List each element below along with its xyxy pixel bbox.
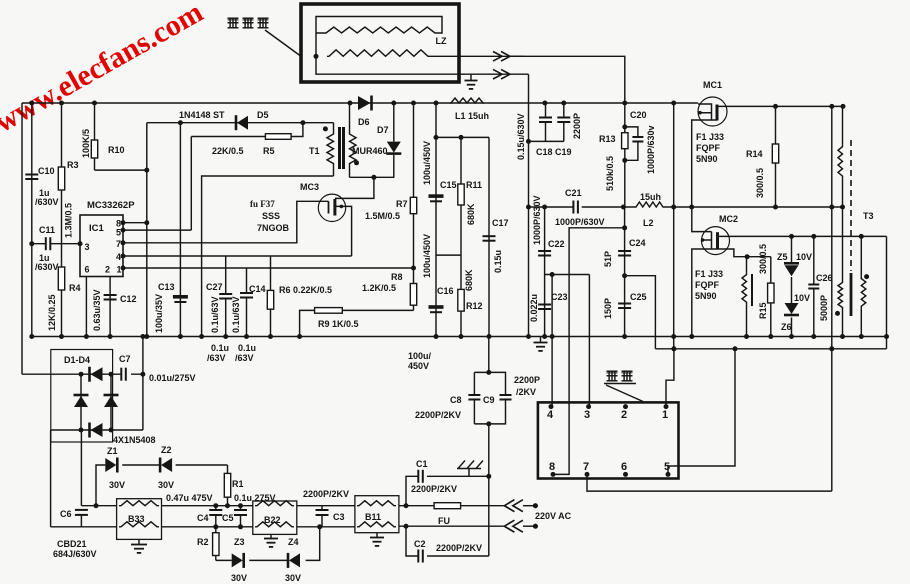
bridge box D1-D4 bbox=[51, 350, 113, 443]
junction dots pin8 vertical bbox=[144, 168, 149, 226]
svg-text:L2: L2 bbox=[643, 218, 654, 228]
wire socket line bbox=[655, 348, 886, 350]
svg-text:100K/5: 100K/5 bbox=[81, 129, 91, 158]
svg-text:R12: R12 bbox=[466, 301, 483, 311]
capacitor C2 bbox=[418, 550, 423, 563]
svg-text:B33: B33 bbox=[128, 514, 145, 524]
label 0.1u /63V below rail left bbox=[207, 343, 229, 363]
svg-text:1: 1 bbox=[117, 265, 122, 275]
svg-text:R8: R8 bbox=[391, 272, 403, 282]
svg-text:3: 3 bbox=[584, 409, 590, 421]
resistor 300/0.5 box bbox=[768, 257, 774, 337]
wire rail2 right segment bbox=[664, 206, 843, 208]
svg-text:MC2: MC2 bbox=[719, 214, 738, 224]
capacitor C18 branch bbox=[539, 103, 552, 141]
junction dots R11 line bbox=[434, 135, 464, 140]
svg-text:R11: R11 bbox=[466, 180, 482, 190]
svg-text:5N90: 5N90 bbox=[696, 154, 718, 164]
svg-text:C14: C14 bbox=[249, 284, 266, 294]
junction dot Z4 up bbox=[317, 524, 322, 529]
wire left rail vertical bbox=[21, 103, 23, 374]
svg-text:10V: 10V bbox=[796, 252, 812, 262]
wire R13 vertical bbox=[624, 103, 626, 207]
svg-text:4: 4 bbox=[547, 409, 554, 421]
ground under coupler bottom wire bbox=[465, 74, 478, 89]
svg-text:Z2: Z2 bbox=[161, 445, 172, 455]
svg-text:FQPF: FQPF bbox=[695, 280, 720, 290]
wire C17 vertical bbox=[488, 137, 490, 336]
svg-text:C13: C13 bbox=[158, 282, 175, 292]
wire Z3-Z4 line bbox=[216, 527, 320, 561]
svg-text:7: 7 bbox=[583, 461, 589, 473]
MC3 source lead with dot bbox=[335, 205, 352, 256]
capacitor C10 bbox=[25, 175, 38, 180]
T3 right polarity dot bbox=[864, 274, 869, 279]
MC2 channel bar bbox=[716, 232, 719, 249]
capacitor C14 branch bbox=[240, 268, 253, 337]
coupler lower winding zigzag bbox=[327, 50, 430, 57]
svg-text:Z6: Z6 bbox=[781, 322, 792, 332]
transformer T3 secondary left winding bbox=[838, 207, 843, 337]
wire C10 branch vertical bbox=[31, 103, 33, 244]
svg-text:R6 0.22K/0.5: R6 0.22K/0.5 bbox=[279, 285, 332, 295]
svg-text:C25: C25 bbox=[630, 292, 647, 302]
arrow AC in upper bbox=[504, 500, 538, 512]
wire pin1 riser bbox=[666, 349, 674, 407]
leader line from 耦合器 to coupler box bbox=[265, 30, 302, 57]
svg-text:6: 6 bbox=[621, 461, 627, 473]
svg-text:4X1N5408: 4X1N5408 bbox=[113, 435, 156, 445]
junction dot tap bbox=[550, 272, 555, 339]
socket pin dots top bbox=[549, 404, 669, 409]
label 100u/ 450V lower bbox=[408, 351, 432, 371]
svg-text:C11: C11 bbox=[39, 225, 55, 235]
capacitor C3 bbox=[316, 506, 329, 527]
svg-text:10V: 10V bbox=[794, 293, 810, 303]
zener Z4 bbox=[288, 553, 300, 568]
diode D7 MUR460 bbox=[386, 103, 401, 177]
transformer T3 core bar bbox=[850, 273, 853, 316]
svg-text:C22: C22 bbox=[548, 239, 565, 249]
svg-text:5: 5 bbox=[116, 228, 121, 238]
MC2 gate structure bbox=[701, 232, 712, 249]
svg-text:C4: C4 bbox=[197, 513, 209, 523]
coupler inner loop wire bbox=[316, 17, 459, 75]
wire C10 line to rail3 bbox=[31, 244, 33, 337]
svg-text:15uh: 15uh bbox=[640, 192, 661, 202]
R15 side bar bbox=[751, 274, 753, 306]
MC3 gate bar bbox=[328, 201, 330, 213]
junction dots on top rail bbox=[29, 101, 676, 106]
svg-text:100u/450V: 100u/450V bbox=[422, 234, 432, 278]
MC2 drain lead bbox=[718, 235, 887, 237]
label 插座 bbox=[607, 371, 633, 381]
capacitor C6 bbox=[75, 510, 88, 527]
junction dots rail2 bbox=[526, 205, 845, 210]
junction dots MC1 drain line bbox=[773, 104, 846, 109]
zener Z2 bbox=[160, 458, 172, 473]
svg-text:100u/35V: 100u/35V bbox=[154, 294, 164, 333]
svg-text:/2KV: /2KV bbox=[516, 387, 536, 397]
svg-text:1: 1 bbox=[662, 409, 668, 421]
capacitor C7 bbox=[121, 368, 126, 381]
fuse FU bbox=[434, 503, 461, 509]
coupler box LZ outline bbox=[301, 4, 459, 82]
svg-text:220V AC: 220V AC bbox=[535, 511, 572, 521]
MC2 source lead left bbox=[692, 249, 718, 337]
resistor R8 bbox=[410, 284, 416, 306]
svg-text:T3: T3 bbox=[863, 211, 874, 221]
svg-text:0.1u/63V: 0.1u/63V bbox=[210, 296, 220, 333]
svg-text:0.15u: 0.15u bbox=[493, 250, 503, 273]
svg-text:R3: R3 bbox=[67, 160, 79, 170]
svg-text:0.01u/275V: 0.01u/275V bbox=[149, 373, 196, 383]
svg-text:R4: R4 bbox=[69, 283, 81, 293]
capacitor C9 plates bbox=[500, 395, 512, 400]
junction dot Z1 tap bbox=[94, 503, 99, 508]
svg-text:C16: C16 bbox=[437, 286, 454, 296]
capacitor C4 bbox=[209, 506, 222, 527]
wire pin7 line to MC3 gate riser bbox=[123, 201, 329, 243]
svg-text:3: 3 bbox=[85, 242, 90, 252]
wire rail3 to C8C9 bbox=[488, 337, 490, 373]
op-amp IC1 MC33262P box bbox=[80, 215, 123, 277]
svg-text:C12: C12 bbox=[120, 294, 137, 304]
wire bridge bottom line bbox=[51, 429, 143, 431]
capacitor C19 branch bbox=[557, 103, 570, 141]
filter B22 box bbox=[253, 501, 297, 534]
svg-text:5N90: 5N90 bbox=[695, 291, 717, 301]
svg-text:150P: 150P bbox=[603, 298, 613, 319]
capacitor C12 bbox=[104, 295, 117, 300]
junction dots C4 C5 R1 bbox=[213, 503, 243, 529]
svg-text:30V: 30V bbox=[158, 480, 174, 490]
wire C24-C25 vertical bbox=[624, 207, 626, 337]
MC3 channel bar bbox=[333, 199, 336, 216]
svg-text:2: 2 bbox=[105, 265, 110, 275]
wire coupler bottom to vertical bbox=[459, 73, 529, 75]
MC3 drain lead bbox=[335, 177, 374, 198]
svg-text:C5: C5 bbox=[222, 513, 234, 523]
wire bridge left column bbox=[80, 374, 82, 430]
svg-text:100u/: 100u/ bbox=[408, 351, 432, 361]
svg-text:300/0.5: 300/0.5 bbox=[755, 168, 765, 198]
wire C7 riser to rail3 bbox=[142, 337, 144, 431]
wire pin3 horizontal with C11 bbox=[32, 243, 80, 245]
diode D6 bbox=[358, 96, 372, 111]
transformer T3 core dashed bbox=[850, 140, 852, 271]
svg-text:C24: C24 bbox=[629, 238, 646, 248]
svg-text:R15: R15 bbox=[758, 302, 768, 319]
svg-text:680K: 680K bbox=[466, 203, 476, 225]
label 0.1u /63V below rail right bbox=[235, 343, 256, 363]
svg-text:/63V: /63V bbox=[207, 353, 226, 363]
svg-text:6: 6 bbox=[85, 265, 90, 275]
resistor R10 bbox=[91, 103, 97, 170]
wire R5 line bbox=[191, 123, 303, 137]
wire T1 left return bbox=[202, 176, 334, 337]
capacitor C20 parallel branch bbox=[625, 127, 644, 160]
junction dot C18C19 line bbox=[526, 139, 531, 144]
junction dot pin1-R7R8 bbox=[411, 266, 416, 271]
svg-text:/630V: /630V bbox=[35, 197, 59, 207]
junction dots bridge top bbox=[79, 372, 146, 377]
svg-text:C1: C1 bbox=[416, 459, 428, 469]
wire R11 top line bbox=[436, 136, 489, 138]
svg-text:2200P: 2200P bbox=[572, 113, 582, 139]
transistor MC1 body bbox=[698, 97, 727, 126]
svg-text:CBD21: CBD21 bbox=[57, 539, 87, 549]
wire C13 vertical (from D5 line) bbox=[179, 123, 181, 337]
wire bridge right column bbox=[110, 374, 112, 430]
wire line1 B33-B22 bbox=[162, 505, 253, 507]
wire pin4 line to MC3 source riser bbox=[123, 255, 352, 257]
filter B33 box bbox=[117, 499, 162, 540]
svg-text:C6: C6 bbox=[60, 509, 72, 519]
svg-text:30V: 30V bbox=[285, 573, 301, 583]
wire C24/C25 mid tap to socket line bbox=[625, 276, 656, 349]
svg-text:R14: R14 bbox=[746, 149, 763, 159]
svg-text:1N4148 ST: 1N4148 ST bbox=[179, 110, 225, 120]
junction dots rail3 left bbox=[29, 334, 491, 339]
T1 polarity dot right bbox=[354, 160, 359, 165]
arrow output upper bbox=[493, 52, 510, 62]
svg-text:0.022u: 0.022u bbox=[529, 294, 539, 322]
svg-text:2200P/2KV: 2200P/2KV bbox=[303, 489, 349, 499]
svg-text:0.63u/35V: 0.63u/35V bbox=[92, 289, 102, 331]
wire pin5 wire bbox=[668, 349, 735, 475]
svg-text:2: 2 bbox=[621, 409, 627, 421]
coupler lower winding junction dot bbox=[314, 54, 319, 59]
junction dots rail3 right bbox=[140, 334, 889, 339]
svg-text:B11: B11 bbox=[365, 512, 381, 522]
MC1 channel bar bbox=[716, 105, 719, 121]
wire C18 C19 bottoms bbox=[529, 140, 564, 142]
capacitor C16 electrolytic bbox=[429, 305, 444, 312]
pin stubs dots right side bbox=[121, 220, 126, 270]
capacitor C11 bbox=[46, 237, 51, 250]
wire Z1-Z2 line bbox=[96, 465, 228, 506]
wire pin8 line bbox=[123, 222, 147, 224]
svg-text:F1 J33: F1 J33 bbox=[695, 269, 723, 279]
wire rail3 bbox=[30, 336, 887, 338]
junction dots socket line bbox=[671, 346, 834, 351]
wire line2 B11-arrow bbox=[399, 525, 505, 527]
wire C2 line bbox=[406, 526, 489, 556]
junction dots R13/C20 bbox=[622, 124, 627, 162]
svg-text:IC1: IC1 bbox=[89, 223, 105, 234]
svg-text:22K/0.5: 22K/0.5 bbox=[212, 146, 244, 156]
svg-text:/63V: /63V bbox=[235, 353, 254, 363]
MC1 gate structure bbox=[698, 104, 712, 120]
ground B22 bbox=[264, 534, 278, 547]
svg-text:0.1u/63V: 0.1u/63V bbox=[231, 296, 241, 333]
svg-text:0.1u: 0.1u bbox=[238, 343, 256, 353]
zener Z3 bbox=[232, 553, 244, 568]
transformer T3 secondary right winding bbox=[861, 236, 866, 336]
arrow AC in lower bbox=[504, 520, 538, 532]
wire upper arrow line to R13 vertical bbox=[510, 56, 625, 103]
wire R3-R4 vertical bbox=[61, 103, 63, 337]
svg-text:2200P/2KV: 2200P/2KV bbox=[415, 410, 461, 420]
ground B33 bbox=[131, 539, 147, 553]
leader 插座 to box bbox=[606, 385, 643, 402]
svg-text:684J/630V: 684J/630V bbox=[53, 549, 97, 559]
svg-text:C21: C21 bbox=[565, 188, 582, 198]
svg-text:30V: 30V bbox=[231, 573, 247, 583]
wire line2 B33-B22 bbox=[162, 526, 253, 528]
wire link rail3 to socket line bbox=[673, 337, 675, 349]
MC1 drain lead bbox=[717, 105, 843, 107]
wire bridge left drop bbox=[50, 430, 52, 527]
junction dot R15 top bbox=[745, 254, 750, 259]
junction dots MC2 drain line bbox=[789, 234, 864, 239]
wire C1 line bbox=[406, 476, 489, 505]
svg-text:C3: C3 bbox=[333, 512, 345, 522]
wire rail to MC1 vertical link bbox=[673, 103, 675, 337]
svg-text:12K/0.25: 12K/0.25 bbox=[47, 294, 57, 331]
svg-text:Z4: Z4 bbox=[288, 537, 299, 547]
transformer T1 right winding bbox=[350, 103, 357, 177]
B22 upper zigzag bbox=[255, 501, 294, 506]
wire R7-R8 vertical bbox=[413, 103, 415, 310]
filter B11 box bbox=[355, 496, 399, 533]
capacitor C8 plates bbox=[468, 395, 480, 400]
arrow output lower bbox=[493, 69, 510, 79]
inductor L2 bbox=[635, 202, 664, 207]
B33 upper zigzag bbox=[119, 501, 159, 506]
svg-text:C20: C20 bbox=[630, 110, 647, 120]
junction dot C1 line bbox=[486, 474, 491, 479]
junction dot C10-C11 wire bbox=[29, 241, 34, 246]
capacitor C25 bbox=[618, 304, 631, 309]
svg-text:D1-D4: D1-D4 bbox=[64, 355, 90, 365]
wire line1 C6-B33 bbox=[81, 505, 116, 507]
svg-text:MC1: MC1 bbox=[703, 80, 722, 90]
resistor R7 bbox=[410, 197, 416, 213]
svg-text:1.3M/0.5: 1.3M/0.5 bbox=[64, 203, 74, 238]
resistor R14 bbox=[772, 106, 778, 207]
socket box 插座 bbox=[538, 402, 679, 478]
wire line1 B11-arrow with FU bbox=[399, 505, 505, 507]
wire C22-C23 vertical bbox=[544, 207, 546, 337]
wire rail2 left segment with C21 bbox=[529, 206, 636, 208]
wire LZ lower winding to arrow bbox=[430, 55, 524, 57]
resistor R4 bbox=[58, 267, 64, 290]
wire pin2 vertical bbox=[109, 277, 111, 337]
svg-text:30V: 30V bbox=[109, 480, 125, 490]
wire top rail bbox=[22, 102, 698, 104]
svg-text:300/0.5: 300/0.5 bbox=[758, 244, 768, 274]
svg-text:R5: R5 bbox=[263, 146, 275, 156]
svg-text:680K: 680K bbox=[464, 269, 474, 291]
wire C16-R12 connector bbox=[436, 254, 461, 256]
capacitor C23 bbox=[538, 305, 551, 310]
T3 left polarity dot bbox=[835, 311, 840, 316]
svg-text:C23: C23 bbox=[551, 292, 568, 302]
svg-text:8: 8 bbox=[549, 461, 555, 473]
inductor L1 bbox=[450, 98, 484, 103]
resistor R12 bbox=[458, 289, 464, 336]
svg-text:C9: C9 bbox=[483, 395, 495, 405]
svg-text:7: 7 bbox=[116, 239, 121, 249]
wire line2 left bbox=[51, 526, 117, 528]
junction dot pin3 bbox=[78, 241, 83, 246]
svg-text:100u/450V: 100u/450V bbox=[422, 141, 432, 185]
svg-text:MC33262P: MC33262P bbox=[87, 200, 135, 211]
svg-text:C27: C27 bbox=[206, 282, 223, 292]
svg-text:MUR460: MUR460 bbox=[352, 146, 388, 156]
resistor R11 bbox=[458, 137, 464, 289]
junction dots C1 C2 risers bbox=[404, 503, 409, 529]
resistor R9 bbox=[315, 308, 343, 314]
ground B11 bbox=[370, 533, 384, 546]
svg-text:7NGOB: 7NGOB bbox=[257, 223, 290, 233]
svg-text:R2: R2 bbox=[197, 537, 209, 547]
wire coupler top feed down to rail3 (0.15u/630V line) bbox=[528, 74, 530, 336]
resistor R15 zigzag bbox=[742, 257, 747, 337]
wire pin8 vertical (D5 feed down to rail3) bbox=[146, 123, 148, 337]
junction dot C24 tap bbox=[622, 225, 627, 230]
svg-text:1000P/630V: 1000P/630V bbox=[555, 217, 605, 227]
wire long vertical (pin7 feed) bbox=[831, 106, 833, 491]
svg-text:L1 15uh: L1 15uh bbox=[455, 111, 489, 121]
svg-text:0.1u: 0.1u bbox=[211, 343, 229, 353]
MC1 source lead bbox=[692, 120, 717, 207]
svg-text:C26: C26 bbox=[816, 273, 833, 283]
svg-text:B22: B22 bbox=[264, 515, 281, 525]
resistor R1 bbox=[224, 465, 230, 506]
svg-text:R7: R7 bbox=[396, 199, 408, 209]
svg-text:0.15u/630V: 0.15u/630V bbox=[516, 113, 526, 160]
B22 lower zigzag bbox=[255, 522, 294, 527]
transformer T1 core bars bbox=[340, 127, 344, 169]
wire pin4 riser bbox=[551, 275, 553, 407]
wire right edge drop bbox=[886, 236, 888, 348]
transistor MC3 body bbox=[318, 194, 345, 221]
diode D-left bbox=[74, 395, 89, 407]
transformer T3 primary winding bbox=[838, 106, 843, 207]
svg-text:Z3: Z3 bbox=[234, 537, 245, 547]
svg-text:C17: C17 bbox=[492, 218, 509, 228]
svg-text:Z5: Z5 bbox=[777, 252, 788, 262]
ground on rail3 bbox=[534, 337, 548, 351]
svg-text:R1: R1 bbox=[232, 479, 244, 489]
diode D-top bbox=[90, 367, 103, 382]
svg-text:4: 4 bbox=[116, 252, 121, 262]
capacitor C21 bbox=[573, 201, 578, 214]
resistor R13 bbox=[622, 133, 628, 149]
svg-text:R10: R10 bbox=[108, 145, 125, 155]
capacitor C27 branch bbox=[219, 256, 232, 337]
resistor R3 bbox=[58, 167, 64, 190]
wire R10 bottom to pin8 vertical bbox=[95, 169, 147, 171]
svg-text:1.5M/0.5: 1.5M/0.5 bbox=[365, 211, 400, 221]
capacitor C24 bbox=[618, 251, 631, 256]
wire MC2 gate riser bbox=[692, 207, 712, 232]
svg-text:C8: C8 bbox=[450, 395, 462, 405]
zener Z1 bbox=[105, 458, 117, 473]
svg-text:C18 C19: C18 C19 bbox=[536, 147, 572, 157]
svg-text:/630V: /630V bbox=[35, 262, 59, 272]
svg-text:450V: 450V bbox=[408, 361, 429, 371]
C8 C9 loop bbox=[474, 372, 505, 424]
svg-text:2200P: 2200P bbox=[514, 375, 540, 385]
svg-text:5000P: 5000P bbox=[819, 295, 829, 321]
diode D5 1N4148 bbox=[236, 115, 248, 130]
wire pin5 line bbox=[123, 137, 191, 231]
capacitor C17 bbox=[483, 236, 496, 241]
